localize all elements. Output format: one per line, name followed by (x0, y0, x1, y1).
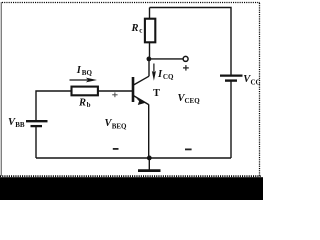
label minus CE (185, 148, 192, 150)
label Rb (78, 97, 91, 109)
svg-text:CQ: CQ (163, 73, 174, 81)
black band bottom (decorative) (0, 177, 263, 200)
wire: VBB bottom lead (35, 126, 37, 158)
svg-text:b: b (87, 101, 91, 109)
label plus at base (112, 92, 117, 97)
svg-text:R: R (131, 23, 139, 34)
ground stub (148, 158, 150, 170)
wire: base lead from Rb (98, 90, 132, 92)
transistor T base bar (132, 77, 135, 102)
svg-text:CEQ: CEQ (185, 97, 201, 105)
battery VCC short plate (225, 79, 237, 81)
label VCC (243, 74, 260, 86)
battery VBB short plate (31, 125, 43, 127)
battery VBB long plate (26, 120, 48, 122)
wire: emitter vertical to ground rail (148, 104, 150, 158)
label VBB (8, 117, 25, 129)
wire: VBB top lead up and right to Rb (36, 91, 72, 121)
wire: collector vertical (148, 59, 150, 76)
transistor T emitter diagonal (134, 96, 149, 105)
resistor Rb (72, 87, 98, 96)
node: emitter junction dot (147, 156, 152, 161)
label Rc (131, 23, 143, 35)
ground bar (138, 169, 161, 172)
wire: bottom rail (36, 157, 231, 159)
wire: right vertical to VCC (230, 81, 232, 158)
arrowhead IBQ (86, 78, 97, 83)
node: collector junction dot (147, 57, 152, 62)
label plus at output (183, 65, 189, 71)
label IBQ (76, 65, 93, 77)
svg-text:T: T (153, 88, 160, 99)
svg-text:R: R (78, 97, 86, 108)
transistor T collector diagonal (134, 76, 150, 85)
svg-text:BB: BB (15, 121, 25, 129)
wire: VCC top lead and top rail (150, 8, 232, 76)
resistor Rc (145, 19, 155, 43)
terminal: open circle output (183, 56, 188, 61)
svg-text:BEQ: BEQ (112, 122, 127, 130)
label minus BE (113, 148, 119, 150)
svg-text:BQ: BQ (82, 69, 93, 77)
label ICQ (157, 69, 174, 81)
label VCEQ (178, 93, 201, 105)
label VBEQ (105, 118, 128, 130)
wire: Rc bottom lead to collector node (149, 42, 151, 59)
arrowhead ICQ (152, 71, 156, 81)
transistor emitter arrowhead (136, 98, 145, 105)
svg-text:c: c (139, 27, 142, 35)
current arrow ICQ (153, 64, 155, 75)
wire: Rc top lead (149, 8, 151, 19)
current arrow IBQ (70, 79, 90, 81)
battery VCC long plate (220, 74, 243, 76)
svg-text:CC: CC (251, 78, 261, 86)
wire: collector node to output terminal (149, 58, 183, 60)
